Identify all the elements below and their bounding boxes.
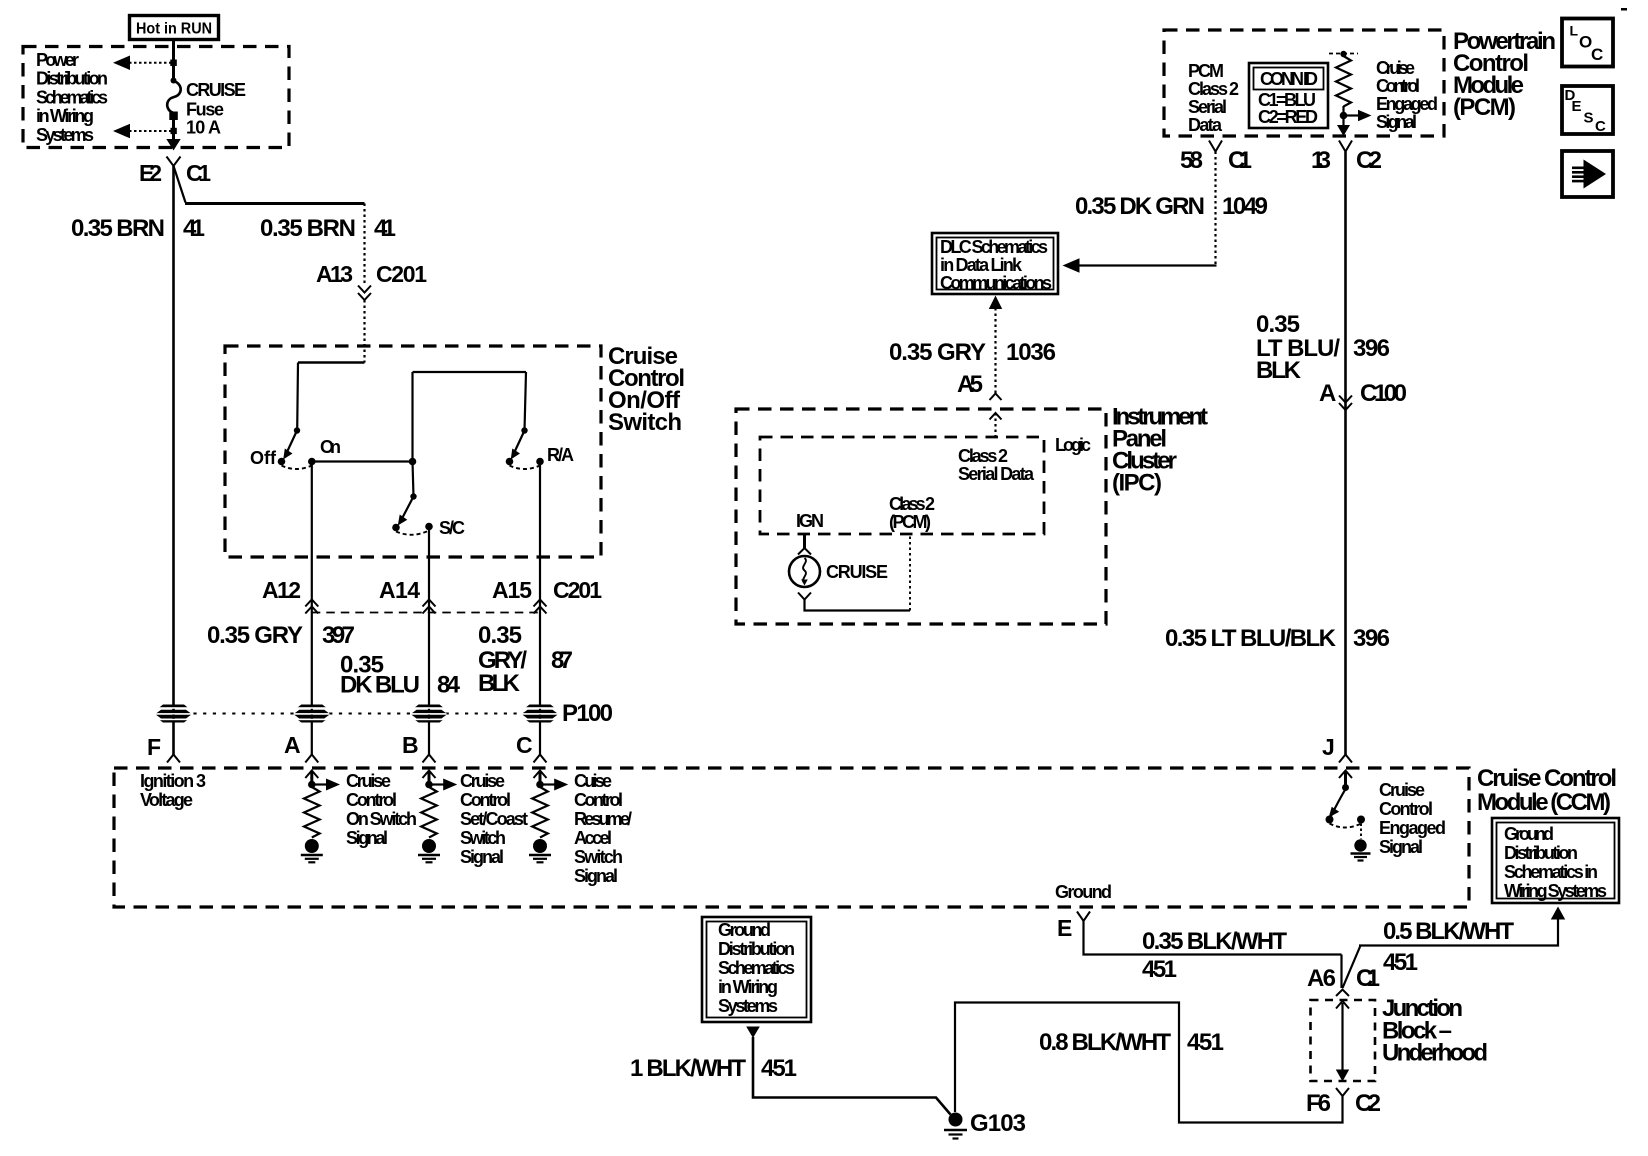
wire from Hot in RUN box down to fuse <box>172 40 175 82</box>
wire from C201 into switch box <box>363 300 365 363</box>
svg-text:0.35 DK GRN: 0.35 DK GRN <box>1075 193 1205 220</box>
reference box Ground Distribution Schematics (bottom) <box>702 917 811 1022</box>
svg-text:Resume/: Resume/ <box>574 809 632 829</box>
switch Off/On <box>250 427 341 469</box>
svg-text:0.35 LT BLU/BLK: 0.35 LT BLU/BLK <box>1165 625 1337 652</box>
svg-text:0.35 BRN: 0.35 BRN <box>71 215 165 242</box>
IPC pin A5 <box>957 371 1002 400</box>
wire 0.8 BLK/WHT 451 from F6 to G103 <box>955 1003 1343 1123</box>
wire 1 BLK/WHT 451 to G103 <box>630 1027 951 1115</box>
svg-text:C1: C1 <box>1356 965 1380 992</box>
svg-text:A12: A12 <box>262 577 301 603</box>
svg-text:C1: C1 <box>1228 147 1252 174</box>
svg-text:Class 2: Class 2 <box>889 494 935 514</box>
wire 0.35 BRN 41 right branch <box>174 166 397 242</box>
svg-text:0.35 GRY: 0.35 GRY <box>889 339 986 366</box>
svg-text:A15: A15 <box>492 577 532 603</box>
svg-text:A5: A5 <box>957 371 983 398</box>
svg-text:On Switch: On Switch <box>346 809 417 829</box>
svg-text:C: C <box>1591 45 1603 64</box>
svg-text:58: 58 <box>1180 147 1203 174</box>
svg-text:C: C <box>1595 118 1606 135</box>
IPC cruise indicator lamp <box>789 534 888 587</box>
wire arrow to power distribution (upper) <box>113 56 177 71</box>
CCM input C: cruise control resume/accel switch signal load <box>529 771 632 887</box>
power source box Hot in RUN <box>130 16 219 40</box>
svg-text:A13: A13 <box>316 261 353 287</box>
svg-text:Communications: Communications <box>940 273 1052 293</box>
svg-text:J: J <box>1322 734 1335 760</box>
svg-text:On: On <box>320 437 341 457</box>
svg-text:0.8 BLK/WHT: 0.8 BLK/WHT <box>1039 1029 1171 1056</box>
svg-text:Signal: Signal <box>460 847 504 867</box>
svg-text:(PCM): (PCM) <box>889 512 931 532</box>
legend box LOC <box>1562 19 1613 67</box>
PCM internal resistor cruise control engaged signal <box>1329 51 1438 136</box>
wire A12 from On contact down <box>311 462 313 755</box>
svg-text:in Wiring: in Wiring <box>718 977 778 997</box>
svg-text:A: A <box>1319 380 1336 407</box>
wire down to connector A13 <box>363 204 365 287</box>
svg-text:C201: C201 <box>553 577 602 603</box>
svg-text:(PCM): (PCM) <box>1453 94 1516 121</box>
svg-text:Module (CCM): Module (CCM) <box>1477 789 1611 816</box>
wire label 0.35 GRY/BLK 87 <box>478 622 573 697</box>
svg-text:CONN ID: CONN ID <box>1260 69 1318 89</box>
svg-text:IGN: IGN <box>796 511 824 531</box>
svg-text:Accel: Accel <box>574 828 612 848</box>
svg-text:C2: C2 <box>1356 147 1382 174</box>
svg-text:451: 451 <box>761 1055 797 1082</box>
svg-text:C201: C201 <box>376 261 427 287</box>
svg-text:Class 2: Class 2 <box>958 446 1008 466</box>
wire fuse output with down arrow through box edge <box>166 113 180 151</box>
svg-text:C1: C1 <box>186 160 211 186</box>
svg-text:Off: Off <box>250 448 277 468</box>
svg-text:F6: F6 <box>1306 1090 1331 1117</box>
svg-text:C2: C2 <box>1355 1090 1381 1117</box>
svg-text:Serial: Serial <box>1188 97 1227 117</box>
svg-text:A: A <box>284 732 301 758</box>
switch S/C <box>392 493 465 538</box>
svg-text:Ground: Ground <box>718 920 771 940</box>
cruise control module CCM box <box>114 765 1617 907</box>
svg-text:451: 451 <box>1383 949 1418 976</box>
ground G103 <box>944 1110 1026 1139</box>
svg-text:PCM: PCM <box>1188 61 1224 81</box>
svg-text:Ground: Ground <box>1504 824 1554 844</box>
PCM class 2 serial data label <box>1188 61 1239 135</box>
PCM pin 13 C2 <box>1311 141 1382 175</box>
svg-text:L: L <box>1570 23 1579 39</box>
svg-text:DK BLU: DK BLU <box>340 672 420 699</box>
svg-text:C2=RED: C2=RED <box>1258 107 1318 127</box>
svg-text:Ground: Ground <box>1055 882 1112 902</box>
svg-text:DLC Schematics: DLC Schematics <box>940 237 1048 257</box>
svg-text:87: 87 <box>551 647 573 674</box>
svg-text:in Data Link: in Data Link <box>940 255 1023 275</box>
svg-text:10 A: 10 A <box>186 118 221 138</box>
svg-text:84: 84 <box>437 672 461 699</box>
svg-text:BLK: BLK <box>1256 357 1302 384</box>
svg-text:0.35 BLK/WHT: 0.35 BLK/WHT <box>1142 928 1287 955</box>
svg-text:(IPC): (IPC) <box>1112 470 1162 497</box>
junction block connector F6 C2 <box>1306 1088 1381 1117</box>
svg-text:Set/Coast: Set/Coast <box>460 809 528 829</box>
svg-text:0.5 BLK/WHT: 0.5 BLK/WHT <box>1383 918 1514 945</box>
svg-text:A6: A6 <box>1307 965 1336 992</box>
svg-text:Data: Data <box>1188 115 1223 135</box>
svg-text:Ignition 3: Ignition 3 <box>140 771 206 791</box>
junction block internal arrow <box>1336 1001 1349 1082</box>
svg-text:Cruise Control: Cruise Control <box>1477 765 1617 792</box>
pass-through grommet P100 <box>156 700 613 727</box>
svg-text:Control: Control <box>460 790 511 810</box>
svg-text:Distribution: Distribution <box>36 69 108 89</box>
svg-text:1049: 1049 <box>1222 193 1268 220</box>
connector A C100 <box>1319 380 1407 410</box>
svg-text:BLK: BLK <box>478 670 521 697</box>
svg-text:Serial Data: Serial Data <box>958 464 1035 484</box>
svg-text:S/C: S/C <box>439 518 465 538</box>
svg-text:P100: P100 <box>562 700 613 727</box>
stray mark top right <box>1621 8 1627 11</box>
wire 0.5 BLK/WHT 451 from ground distribution <box>1343 907 1566 989</box>
svg-text:Signal: Signal <box>346 828 388 848</box>
wire label 0.35 LT BLU/BLK 396 lower <box>1165 625 1390 652</box>
IPC wire lamp to class 2 PCM <box>798 535 910 611</box>
legend box DESC <box>1562 86 1613 135</box>
svg-text:Distribution: Distribution <box>718 939 795 959</box>
reference box DLC Schematics in Data Link Communications <box>932 233 1058 294</box>
svg-text:Control: Control <box>1379 799 1433 819</box>
svg-text:E2: E2 <box>139 160 162 186</box>
svg-text:451: 451 <box>1187 1029 1224 1056</box>
svg-text:Cruise: Cruise <box>1379 780 1425 800</box>
fuse CRUISE Fuse 10 A <box>167 78 246 138</box>
CCM pin E ground <box>1055 882 1112 941</box>
svg-text:Cruise: Cruise <box>460 771 505 791</box>
svg-text:1036: 1036 <box>1006 339 1056 366</box>
svg-text:Underhood: Underhood <box>1382 1040 1488 1067</box>
CCM pin F ignition 3 voltage label <box>140 771 206 810</box>
svg-text:Schematics: Schematics <box>718 958 795 978</box>
reference box Ground Distribution Schematics (right) <box>1492 818 1619 903</box>
junction block underhood box <box>1311 995 1489 1081</box>
wire A15 from R/A contact down <box>539 462 541 755</box>
svg-text:Hot in RUN: Hot in RUN <box>136 21 212 38</box>
svg-text:41: 41 <box>183 215 205 242</box>
CCM input B: cruise control set/coast switch signal load <box>418 771 528 868</box>
svg-text:1 BLK/WHT: 1 BLK/WHT <box>630 1055 746 1082</box>
legend box arrow <box>1562 151 1613 197</box>
svg-text:0.35: 0.35 <box>478 622 522 649</box>
svg-text:Cuise: Cuise <box>574 771 612 791</box>
svg-text:Signal: Signal <box>1376 112 1417 132</box>
svg-text:Switch: Switch <box>608 409 682 436</box>
wire 0.35 LT BLU/BLK 396 from PCM pin 13 <box>1256 152 1390 755</box>
svg-text:B: B <box>402 732 419 758</box>
svg-text:CRUISE: CRUISE <box>826 562 888 582</box>
CCM input A: cruise control on switch signal load <box>301 771 417 863</box>
wire arrow to power distribution (lower) <box>113 124 177 139</box>
svg-text:396: 396 <box>1353 625 1390 652</box>
svg-text:Cruise: Cruise <box>346 771 391 791</box>
svg-text:Signal: Signal <box>574 866 618 886</box>
svg-text:A14: A14 <box>379 577 420 603</box>
powertrain control module PCM box <box>1164 28 1556 136</box>
svg-text:Control: Control <box>1376 76 1420 96</box>
svg-text:0.35 GRY: 0.35 GRY <box>207 622 303 649</box>
svg-text:Logic: Logic <box>1055 435 1091 455</box>
svg-text:Voltage: Voltage <box>140 790 193 810</box>
wire jog to off/on switch <box>297 363 364 430</box>
connector A13 C201 <box>316 261 427 300</box>
CCM pin J cruise control engaged switch <box>1322 734 1446 861</box>
wire label 0.35 GRY 397 <box>207 622 355 649</box>
PCM pin 58 C1 <box>1180 141 1252 175</box>
svg-text:Switch: Switch <box>460 828 506 848</box>
wire label 0.35 DK BLU 84 <box>340 652 461 699</box>
connector pin E2 C1 <box>139 157 211 187</box>
svg-text:CRUISE: CRUISE <box>186 80 246 100</box>
svg-text:397: 397 <box>322 622 355 649</box>
CONN ID legend box C1=BLU C2=RED <box>1249 63 1328 128</box>
wire 0.35 DK GRN 1049 from pin 58 to DLC <box>1063 152 1269 273</box>
svg-text:C: C <box>516 732 533 758</box>
svg-text:C100: C100 <box>1360 380 1407 407</box>
svg-text:Control: Control <box>346 790 397 810</box>
svg-text:Engaged: Engaged <box>1376 94 1438 114</box>
svg-text:Distribution: Distribution <box>1504 843 1578 863</box>
wire 0.35 GRY 1036 from DLC to IPC pin A5 <box>889 296 1056 394</box>
svg-text:0.35 BRN: 0.35 BRN <box>260 215 356 242</box>
svg-text:Cruise: Cruise <box>1376 58 1415 78</box>
switch R/A <box>506 372 574 469</box>
svg-text:Control: Control <box>574 790 623 810</box>
CCM pins F A B C <box>147 732 547 763</box>
svg-text:Class 2: Class 2 <box>1188 79 1239 99</box>
svg-text:Engaged: Engaged <box>1379 818 1446 838</box>
wire on-contact bus <box>312 372 526 497</box>
svg-text:in Wiring: in Wiring <box>36 106 94 126</box>
svg-text:S: S <box>1584 110 1594 127</box>
svg-text:451: 451 <box>1142 956 1177 983</box>
wire 0.35 BLK/WHT 451 from pin E <box>1084 921 1342 988</box>
svg-text:F: F <box>147 734 161 760</box>
svg-text:13: 13 <box>1311 147 1331 174</box>
svg-text:Schematics: Schematics <box>36 87 108 107</box>
reference box Power Distribution Schematics in Wiring Systems <box>23 47 289 148</box>
svg-text:Systems: Systems <box>36 125 94 145</box>
connector C201 pins A12 A14 A15 <box>262 577 602 614</box>
IPC internal wire from A5 to logic <box>990 413 1002 437</box>
junction block connector A6 C1 <box>1307 965 1380 996</box>
IPC logic box <box>760 435 1091 534</box>
wire 0.35 BRN 41 left branch (to CCM pin F) <box>71 166 205 755</box>
instrument panel cluster IPC box <box>736 404 1208 625</box>
svg-text:E: E <box>1572 98 1582 115</box>
wire A14 from S/C contact down <box>428 527 430 755</box>
cruise control on/off switch box <box>225 343 685 557</box>
svg-text:Power: Power <box>36 50 79 70</box>
svg-text:Switch: Switch <box>574 847 623 867</box>
svg-text:Schematics in: Schematics in <box>1504 862 1598 882</box>
svg-text:396: 396 <box>1353 335 1390 362</box>
svg-text:G103: G103 <box>970 1110 1026 1137</box>
svg-text:E: E <box>1057 915 1072 941</box>
svg-text:Signal: Signal <box>1379 837 1423 857</box>
svg-text:Systems: Systems <box>718 996 778 1016</box>
svg-text:Wiring Systems: Wiring Systems <box>1504 881 1607 901</box>
svg-text:0.35: 0.35 <box>1256 311 1300 338</box>
svg-text:R/A: R/A <box>547 445 574 465</box>
svg-text:41: 41 <box>374 215 396 242</box>
